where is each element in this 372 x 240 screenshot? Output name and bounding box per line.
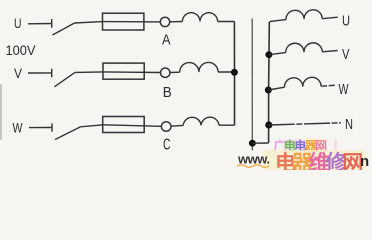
wire coil to primary star bus (row U)	[218, 21, 235, 23]
svg-text:n: n	[360, 153, 369, 170]
svg-text:V: V	[342, 46, 350, 63]
switch fixed contact tick (row W)	[51, 123, 53, 132]
wire through fuse to terminal A	[103, 21, 161, 23]
wire terminal C to primary coil	[171, 124, 183, 127]
wire coil to output V	[322, 51, 337, 52]
primary winding phase W (coil)	[183, 117, 219, 125]
svg-text:电器维修网: 电器维修网	[275, 151, 362, 170]
wire secondary bus corner to coil U	[269, 20, 286, 22]
wire neutral jog core to secondary bus	[252, 142, 268, 144]
switch QS fixed contact tick (row U)	[51, 19, 53, 28]
wire blade to fuse (row W)	[81, 125, 103, 127]
wire blade to fuse (row U)	[75, 22, 104, 23]
secondary winding W (coil)	[284, 77, 321, 87]
svg-text:100V: 100V	[6, 42, 37, 58]
transformer core line	[251, 19, 253, 151]
wire U input lead	[28, 23, 52, 25]
svg-text:C: C	[163, 137, 171, 154]
wire through fuse to terminal B	[103, 71, 161, 74]
switch blade (row V)	[54, 72, 75, 86]
wire tap N to output N	[269, 123, 341, 125]
junction dot primary star row V	[231, 69, 238, 76]
wire coil to primary star bus (row W)	[219, 124, 235, 126]
terminal A circle	[160, 17, 169, 26]
watermark row1 yellow background blob	[304, 139, 326, 152]
wire V input lead	[28, 72, 52, 74]
fuse FU2 (row V)	[103, 63, 144, 79]
secondary bus (right vertical)	[268, 22, 271, 143]
wire terminal A to primary coil	[170, 21, 183, 23]
svg-text:W: W	[13, 121, 23, 136]
primary winding phase V (coil)	[180, 62, 218, 72]
junction dot core bottom / neutral tie	[249, 140, 256, 147]
watermark pale pink streak	[335, 139, 337, 154]
wire coil to output W	[321, 85, 335, 86]
junction dot secondary tap N	[265, 121, 272, 128]
wire blade to fuse (row V)	[75, 71, 103, 74]
wire W input lead	[29, 127, 52, 129]
switch fixed contact tick (row V)	[51, 69, 53, 78]
wire tap V to coil	[269, 53, 286, 55]
terminal B circle	[161, 68, 170, 77]
svg-text:A: A	[162, 32, 171, 49]
svg-text:W: W	[339, 81, 350, 98]
watermark row2 background blob	[263, 150, 366, 170]
primary star-point bus (left vertical)	[233, 22, 235, 126]
switch blade (row U)	[53, 23, 75, 35]
secondary winding U (coil)	[286, 10, 322, 20]
junction dot secondary tap V	[265, 51, 272, 58]
wire tap W to coil	[268, 87, 284, 90]
svg-text:B: B	[163, 84, 172, 101]
switch blade (row W)	[55, 127, 81, 140]
primary winding phase U (coil)	[182, 13, 217, 22]
wire coil to primary star bus (row V)	[218, 71, 234, 73]
junction dot secondary tap W	[265, 87, 272, 94]
svg-text:V: V	[14, 66, 22, 81]
svg-text:U: U	[342, 12, 350, 29]
fuse FU3 (row W)	[103, 117, 145, 133]
wire terminal B to primary coil	[170, 71, 180, 73]
fuse FU1 (row U)	[103, 13, 144, 30]
wire coil to output U	[322, 17, 337, 19]
watermark row1 pink background blob	[284, 140, 306, 152]
svg-text:U: U	[14, 16, 22, 31]
watermark orange wave under www	[237, 165, 269, 168]
scan artifact left edge	[0, 84, 2, 140]
svg-text:N: N	[345, 116, 353, 133]
wire through fuse to terminal C	[103, 125, 162, 127]
secondary winding V (coil)	[286, 43, 323, 53]
terminal C circle	[161, 122, 171, 132]
